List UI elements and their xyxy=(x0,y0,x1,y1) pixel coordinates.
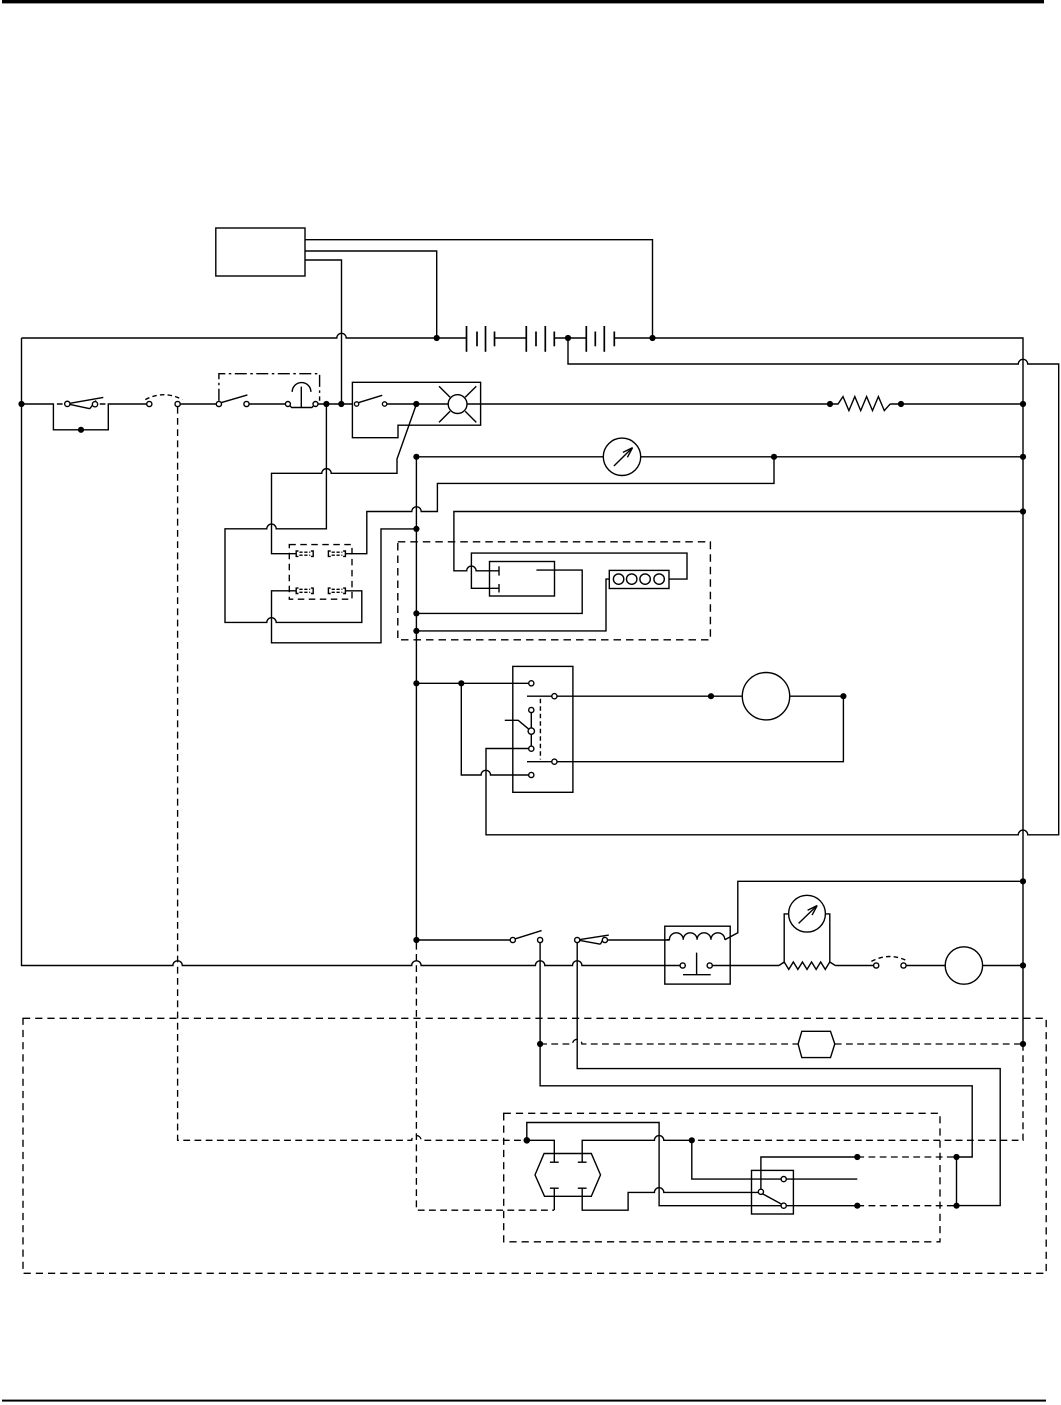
starter relay lever xyxy=(505,720,529,729)
outer harness boundary (dashed) xyxy=(23,1018,1046,1273)
ammeter M1 needle head xyxy=(623,448,633,458)
node dot main row left of lamp unit xyxy=(323,401,329,407)
dashed wire S1 down to flasher feed dot xyxy=(178,407,524,1141)
switch S1 arc (dashed) xyxy=(145,395,182,400)
wire S5 to horn relay coil xyxy=(608,939,670,941)
wire S2 to push contact xyxy=(249,403,285,405)
wire lamp to resistor R1 xyxy=(467,403,830,405)
starter motor B1 xyxy=(742,673,789,720)
dashed wire lower stub to loop xyxy=(857,1205,956,1207)
node dot horn line at right bus xyxy=(1020,962,1026,968)
regulator terminal tick 1 xyxy=(498,566,500,575)
node dot center rail terminal block lead xyxy=(413,628,419,634)
wire hexagon terminal 4 to toggle switch common xyxy=(582,1188,758,1210)
inline connector hexagon xyxy=(798,1031,835,1057)
switch S1 terminals xyxy=(147,401,152,406)
node dot center rail ammeter line corner xyxy=(413,454,419,460)
wire center rail to starter relay terminal A xyxy=(416,682,528,684)
momentary switch S5 terminals xyxy=(575,937,580,942)
wire main row S1 to ignition switch xyxy=(180,403,216,405)
wire R1 to right bus xyxy=(890,403,1023,405)
horn button S4 terminals xyxy=(510,937,515,942)
horn H1 xyxy=(945,947,982,984)
wire battery link 1 xyxy=(495,337,527,339)
wire ammeter line right of meter to right bus xyxy=(641,456,1023,458)
contact row 1 left element xyxy=(296,551,313,556)
dashed wire right bus to flasher switch feed xyxy=(692,1044,1023,1140)
wire lamp lever diagonal down to contact row feed xyxy=(272,405,417,554)
lamp unit housing xyxy=(352,382,480,437)
node dot center rail horn feed xyxy=(413,937,419,943)
node dot ammeter line junction xyxy=(771,454,777,460)
dashed wire upper stub to loop xyxy=(857,1156,956,1158)
battery BT1 group 2 plates xyxy=(526,326,554,352)
node dot stub lower xyxy=(854,1203,860,1209)
node dot loop tie upper xyxy=(953,1154,959,1160)
wire terminal block to center rail xyxy=(416,579,609,631)
node dot switch feed xyxy=(689,1137,695,1143)
wire center rail tap to relay contact row 2 left lead xyxy=(272,529,417,643)
wire main row: left rail to breaker bypass to switch S1 xyxy=(22,404,147,430)
circuit breaker CB1 lever lines xyxy=(70,397,103,408)
horn relay coil xyxy=(667,933,725,940)
gauge M2 lead right xyxy=(825,914,830,962)
flasher unit boundary (dashed) xyxy=(504,1113,940,1242)
wire battery link 2 xyxy=(554,337,586,339)
wire loop tie vertical xyxy=(956,1157,958,1206)
horn relay fixed contact T xyxy=(683,953,711,975)
push-start contact dome xyxy=(292,383,311,392)
starter relay terminal E xyxy=(529,746,534,751)
switch S2 terminals xyxy=(216,401,221,406)
wire left rail from bus corner down and horn ground line with hops xyxy=(22,338,681,966)
wire ammeter junction down to cutout contact right lead xyxy=(345,457,774,554)
hexagon terminal 4 bar xyxy=(578,1187,587,1189)
node dot R1 left xyxy=(827,401,833,407)
regulator box U1 xyxy=(216,228,305,276)
battery BT1 group 3 plates xyxy=(586,326,614,352)
wire horn button drop to turn signal loop xyxy=(540,943,972,1157)
wire battery bus left segment with hop xyxy=(22,333,467,338)
regulator unit box xyxy=(490,562,555,597)
battery BT1 group 1 plates xyxy=(467,326,495,352)
wire toggle bottom contact right to dot xyxy=(786,1205,857,1207)
switch S3 lever in lamp unit xyxy=(358,395,382,402)
points S6 arc (dashed) xyxy=(871,957,908,962)
wire points to horn xyxy=(906,965,945,967)
horn relay K2 box xyxy=(665,926,730,984)
wire battery mid tap to far right vertical and solenoid feed xyxy=(486,338,1059,835)
wire ammeter line left of meter xyxy=(416,456,603,458)
flasher feed dot xyxy=(524,1137,531,1144)
node dot right bus lower end xyxy=(1020,1041,1026,1047)
points S6 terminals xyxy=(874,963,879,968)
node dot main row U1 drop xyxy=(338,401,344,407)
starter relay terminal B xyxy=(552,694,557,699)
hexagon terminal 3 bar xyxy=(550,1187,559,1189)
gauge M2 lead left xyxy=(784,914,789,962)
starter relay link (dashed) xyxy=(539,699,541,760)
wire regulator output to center rail xyxy=(416,570,582,613)
wire relay B to starter motor xyxy=(557,695,742,697)
starter relay pivot xyxy=(528,728,534,734)
wire U1 output 1 to battery right xyxy=(305,240,653,338)
wire U1 output 3 to main row xyxy=(305,260,342,404)
switch S2 lever xyxy=(221,395,247,403)
wire regulator second lead loop to terminal block xyxy=(471,553,687,588)
momentary switch S5 lever lines xyxy=(580,935,609,944)
regulator terminal tick 2 xyxy=(498,584,500,593)
node dots on battery bus xyxy=(434,335,440,341)
gauge M2 xyxy=(789,895,826,932)
wire toggle top contact right stub xyxy=(786,1178,857,1180)
horn relay contact terminals xyxy=(680,963,685,968)
wire coil end up to right bus xyxy=(725,881,1023,939)
lamp DS1 bulb xyxy=(448,395,467,414)
starter relay contact bar C-E xyxy=(530,713,532,747)
dashed wire connector line left xyxy=(540,1039,798,1044)
node dot coil feed at right bus xyxy=(1020,878,1026,884)
node dot main row at right bus xyxy=(1020,401,1026,407)
wire battery bus right segment to right bus corner, down right bus xyxy=(614,338,1023,1044)
dashed wire center rail down to flasher return xyxy=(416,943,554,1210)
ammeter M1 xyxy=(603,438,640,475)
starter relay terminal G xyxy=(529,772,534,777)
wire U1 output 2 to battery left junction xyxy=(305,251,437,338)
toggle switch S7 lever xyxy=(763,1194,782,1204)
resistor R2 xyxy=(779,962,835,969)
wire R2 to points xyxy=(835,965,873,967)
wire relay branch down to terminal G xyxy=(461,683,528,775)
starter relay terminal F stub xyxy=(527,761,552,763)
cutout relay housing (dashed) xyxy=(289,545,352,600)
starter relay terminal B stub xyxy=(527,695,552,697)
hexagon terminal 1 bar xyxy=(550,1161,559,1163)
page bottom rule xyxy=(2,1400,1046,1402)
wire main row drop to relay contact row 2 right lead xyxy=(225,404,362,622)
node dot R1 right xyxy=(898,401,904,407)
wire flasher feed to hexagon terminal 1 xyxy=(527,1140,555,1162)
wire flasher feed loop over hexagon xyxy=(527,1123,781,1206)
circuit breaker CB1 dashed leads xyxy=(57,403,106,405)
dashed wire connector line right to right bus xyxy=(835,1043,1023,1045)
starter relay terminal C xyxy=(529,707,534,712)
node dot relay branch xyxy=(458,680,464,686)
node dot left rail at main row xyxy=(18,401,24,407)
contact row 2 right element xyxy=(328,588,345,593)
terminal block J1 xyxy=(609,570,669,588)
push-start contact plunger xyxy=(300,387,302,408)
wire horn to right bus xyxy=(983,965,1023,967)
lamp DS1 rays xyxy=(439,386,476,422)
node dot loop tie lower xyxy=(953,1203,959,1209)
wire regulator feed from right bus xyxy=(454,512,1023,571)
node dot motor line left xyxy=(708,693,714,699)
wire starter motor to return drop xyxy=(557,696,843,762)
starter relay K1 box xyxy=(513,666,573,792)
node dot center rail regulator output xyxy=(413,610,419,616)
starter relay terminal A xyxy=(529,681,534,686)
horn button S4 lever xyxy=(515,931,542,939)
wire toggle common up and right stub xyxy=(761,1157,857,1189)
node dot ammeter line at right bus xyxy=(1020,454,1026,460)
gauge M2 needle head xyxy=(808,906,818,916)
circuit breaker CB1 terminals xyxy=(65,401,70,406)
node dot S4 drop at connector line xyxy=(537,1041,543,1047)
toggle switch S7 terminals xyxy=(758,1189,763,1194)
voltage regulator assembly housing (dashed) xyxy=(398,542,711,640)
starter relay terminal F xyxy=(552,759,557,764)
wire hexagon terminal 2 to switch feed xyxy=(582,1136,692,1163)
contact row 2 left element xyxy=(296,588,313,593)
wire S3 to lamp DS1 xyxy=(387,403,448,405)
wire push contact to lamp unit xyxy=(318,403,352,405)
wire S5 drop to turn signal loop xyxy=(577,943,1000,1206)
switch S3 terminals xyxy=(354,402,358,406)
flasher hexagon xyxy=(535,1154,601,1197)
ignition switch S2 dash-dot housing xyxy=(219,374,320,401)
node dot stub upper xyxy=(854,1154,860,1160)
node dot motor line right xyxy=(840,693,846,699)
node dot center rail relay feed xyxy=(413,680,419,686)
wire center rail to horn button S4 xyxy=(416,939,510,941)
hexagon terminal 2 bar xyxy=(578,1161,587,1163)
push-start contact dip wire xyxy=(290,406,314,408)
contact row 1 right element xyxy=(328,551,345,556)
node dot center rail contact feed xyxy=(413,526,419,532)
wire switch feed down into toggle switch xyxy=(692,1140,781,1179)
node dot lamp unit lever junction xyxy=(413,401,419,407)
wire horn relay to resistor R2 xyxy=(712,965,779,967)
resistor R1 xyxy=(830,397,890,411)
gauge M2 needle xyxy=(799,906,817,923)
page top rule (thick) xyxy=(2,0,1044,3)
wire hexagon terminal 3 to dashed return xyxy=(553,1188,555,1210)
terminal block J1 sockets xyxy=(613,574,623,584)
ammeter M1 needle xyxy=(614,448,632,466)
push-start terminals xyxy=(285,402,290,407)
toggle switch S7 box xyxy=(752,1170,794,1214)
node dot on breaker bypass xyxy=(78,427,84,433)
wire center rail (ammeter drop) xyxy=(415,457,417,939)
node dot regulator feed at right bus xyxy=(1020,508,1026,514)
